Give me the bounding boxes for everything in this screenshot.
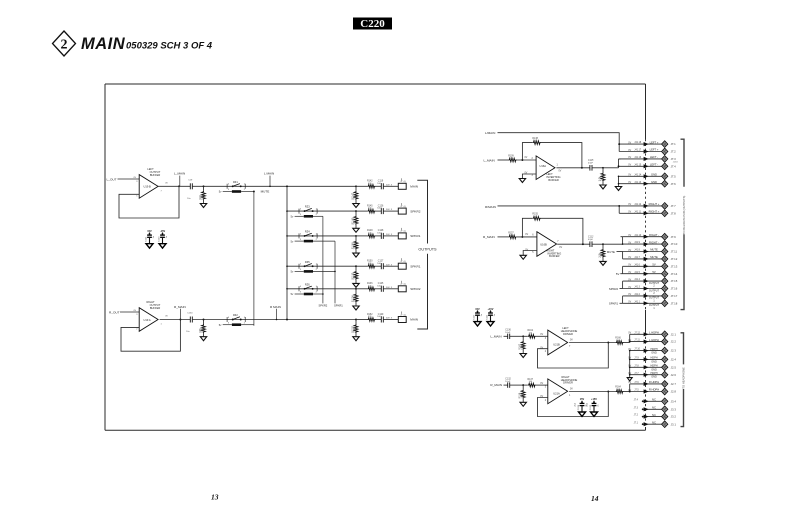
svg-text:LEFT -: LEFT -: [650, 155, 658, 159]
svg-text:JT.16: JT.16: [671, 287, 678, 291]
svg-text:0V: 0V: [628, 265, 631, 267]
svg-text:R_MAIN: R_MAIN: [483, 235, 495, 239]
svg-text:22K1: 22K1: [354, 296, 357, 302]
svg-text:0V: 0V: [570, 340, 573, 342]
svg-text:J2.3: J2.3: [671, 349, 677, 353]
svg-text:0V: 0V: [540, 334, 543, 336]
svg-text:MUTE: MUTE: [650, 255, 658, 259]
svg-text:0V: 0V: [628, 175, 631, 177]
svg-text:50V: 50V: [386, 264, 390, 266]
svg-text:U16A: U16A: [540, 164, 547, 168]
svg-text:JT.13: JT.13: [671, 264, 678, 268]
svg-text:100p: 100p: [377, 183, 383, 185]
svg-text:U19 A: U19 A: [144, 318, 151, 322]
svg-text:RIGHT +: RIGHT +: [649, 202, 660, 206]
svg-text:HDPH: HDPH: [650, 357, 657, 360]
svg-text:BUFFER: BUFFER: [549, 254, 560, 258]
svg-text:TO HEADPHONE: TO HEADPHONE: [681, 367, 685, 389]
svg-text:10uF: 10uF: [505, 381, 511, 383]
svg-text:22K1: 22K1: [354, 327, 357, 333]
svg-text:J41.10: J41.10: [634, 235, 642, 237]
svg-text:47pF: 47pF: [588, 163, 594, 165]
svg-text:J2.6: J2.6: [671, 373, 677, 377]
svg-text:(L): (L): [404, 181, 407, 183]
svg-text:J7.2: J7.2: [634, 415, 639, 417]
svg-text:RZ4: RZ4: [305, 231, 310, 234]
svg-text:HDPH: HDPH: [650, 372, 657, 375]
svg-text:JT.5: JT.5: [671, 174, 677, 178]
svg-text:10K: 10K: [533, 140, 537, 142]
svg-text:J41.15: J41.15: [634, 164, 642, 166]
svg-text:GND: GND: [651, 360, 657, 363]
svg-text:SPKR2: SPKR2: [609, 287, 619, 291]
svg-text:R HDPH: R HDPH: [649, 380, 659, 384]
svg-text:J41.8: J41.8: [634, 250, 640, 252]
svg-text:GND: GND: [651, 368, 657, 371]
svg-text:C117: C117: [474, 314, 476, 320]
svg-text:J41.11: J41.11: [634, 211, 641, 213]
svg-text:100p: 100p: [377, 208, 383, 210]
svg-text:BUFFER: BUFFER: [150, 173, 161, 177]
svg-text:0V: 0V: [628, 250, 631, 252]
svg-text:15V: 15V: [147, 230, 152, 233]
svg-text:R_MAIN: R_MAIN: [490, 383, 502, 387]
svg-text:50V: 50V: [386, 184, 390, 186]
svg-text:0V: 0V: [628, 157, 631, 159]
svg-text:J7.5: J7.5: [634, 390, 639, 392]
svg-text:2: 2: [61, 38, 68, 53]
svg-text:RIGHT -: RIGHT -: [649, 233, 659, 237]
svg-text:JT.8: JT.8: [671, 211, 677, 215]
svg-text:J41.14: J41.14: [634, 174, 642, 176]
svg-text:J7.6: J7.6: [634, 382, 639, 384]
svg-text:100p: 100p: [377, 233, 383, 235]
svg-text:C220: C220: [360, 18, 385, 30]
svg-text:100p: 100p: [377, 316, 383, 318]
svg-text:MUTE: MUTE: [650, 248, 658, 252]
svg-text:J163: J163: [673, 161, 679, 163]
svg-text:MAIN: MAIN: [410, 318, 418, 322]
svg-text:10K: 10K: [533, 216, 537, 218]
svg-text:JT.6: JT.6: [671, 182, 677, 186]
svg-text:NC: NC: [652, 420, 656, 424]
svg-text:1/10: 1/10: [601, 252, 604, 257]
svg-text:C130: C130: [187, 313, 193, 315]
svg-text:RIGHT +: RIGHT +: [649, 210, 660, 214]
svg-text:0V: 0V: [559, 247, 562, 249]
svg-text:100K: 100K: [521, 344, 524, 350]
svg-text:0V: 0V: [525, 157, 528, 159]
svg-text:NC: NC: [652, 413, 656, 417]
svg-text:J41.2: J41.2: [634, 294, 640, 296]
svg-text:SPKR1: SPKR1: [410, 234, 420, 238]
svg-text:J7.7: J7.7: [634, 373, 639, 375]
svg-text:HDPH: HDPH: [650, 365, 657, 368]
svg-text:J3.2: J3.2: [671, 415, 677, 419]
svg-text:J7.8: J7.8: [634, 365, 639, 367]
svg-text:C111: C111: [487, 314, 489, 320]
svg-text:L HDPH: L HDPH: [649, 331, 659, 335]
svg-text:SPKR1: SPKR1: [609, 302, 619, 306]
svg-text:GND: GND: [651, 173, 657, 177]
svg-text:J2.5: J2.5: [671, 365, 677, 369]
svg-text:C121: C121: [146, 236, 148, 242]
svg-text:U16B: U16B: [540, 242, 547, 246]
svg-text:10u: 10u: [187, 198, 190, 200]
svg-text:BUFFER: BUFFER: [150, 306, 161, 310]
svg-text:JT.7: JT.7: [671, 204, 677, 208]
svg-text:C135: C135: [590, 404, 592, 410]
svg-text:J2.7: J2.7: [671, 382, 677, 386]
svg-text:L_MAIN: L_MAIN: [490, 334, 501, 338]
svg-text:J7.9: J7.9: [634, 358, 639, 360]
svg-text:J41.7: J41.7: [634, 257, 640, 259]
svg-text:JT.2: JT.2: [671, 150, 677, 154]
svg-text:OUTPUT: OUTPUT: [649, 304, 660, 307]
svg-text:J7.1: J7.1: [634, 422, 639, 424]
svg-text:JT.12: JT.12: [671, 257, 678, 261]
svg-text:(L): (L): [404, 284, 407, 286]
svg-text:DRIVER: DRIVER: [563, 332, 573, 336]
svg-text:1/10: 1/10: [601, 176, 604, 181]
svg-text:5V: 5V: [652, 263, 655, 267]
svg-text:C134: C134: [578, 404, 580, 410]
svg-text:0V: 0V: [628, 242, 631, 244]
svg-text:BUFFER: BUFFER: [548, 178, 559, 182]
svg-text:100K: 100K: [521, 393, 524, 399]
svg-text:DRIVER: DRIVER: [563, 381, 573, 385]
svg-text:J3.1: J3.1: [671, 422, 677, 426]
svg-text:(L): (L): [404, 231, 407, 233]
svg-text:MAIN: MAIN: [410, 185, 418, 189]
svg-text:0V: 0V: [628, 165, 631, 167]
svg-text:NC: NC: [652, 406, 656, 410]
svg-text:L/MAIN: L/MAIN: [485, 131, 495, 135]
svg-text:JT.9: JT.9: [671, 235, 677, 239]
svg-text:LEFT -: LEFT -: [650, 163, 658, 167]
svg-text:+15V: +15V: [591, 398, 597, 401]
svg-text:22K1: 22K1: [354, 218, 357, 224]
svg-text:J7.10: J7.10: [634, 349, 640, 351]
svg-text:U21A: U21A: [553, 391, 560, 395]
svg-text:0V: 0V: [628, 150, 631, 152]
svg-text:22K1: 22K1: [354, 193, 357, 199]
svg-text:5V: 5V: [652, 270, 655, 274]
svg-text:0V: 0V: [628, 182, 631, 184]
svg-text:-15V: -15V: [160, 230, 166, 233]
svg-text:J7.4: J7.4: [634, 399, 639, 401]
svg-text:15V: 15V: [580, 398, 585, 401]
svg-text:L HDPH: L HDPH: [649, 338, 659, 342]
svg-text:14: 14: [591, 494, 599, 503]
svg-text:RZ5: RZ5: [305, 261, 310, 264]
svg-text:J3.4: J3.4: [671, 399, 677, 403]
svg-text:50V: 50V: [386, 318, 390, 320]
svg-text:MAIN: MAIN: [81, 35, 126, 53]
svg-text:GND: GND: [651, 352, 657, 355]
svg-text:L_OUT: L_OUT: [107, 177, 117, 181]
svg-text:RZ6: RZ6: [305, 283, 310, 286]
svg-text:RIGHT -: RIGHT -: [649, 240, 659, 244]
svg-text:R HDPH: R HDPH: [649, 388, 659, 392]
svg-text:10K: 10K: [509, 234, 513, 236]
svg-text:J41.4: J41.4: [634, 279, 640, 281]
svg-text:(L): (L): [404, 206, 407, 208]
svg-text:5V: 5V: [616, 272, 620, 276]
svg-text:22K1: 22K1: [354, 243, 357, 249]
svg-text:J41.1: J41.1: [634, 301, 640, 303]
svg-text:J41.5: J41.5: [634, 272, 640, 274]
svg-text:50V: 50V: [386, 234, 390, 236]
svg-text:10K: 10K: [509, 158, 513, 160]
svg-text:SPKR1: SPKR1: [410, 264, 420, 268]
svg-text:NC: NC: [652, 398, 656, 402]
svg-text:J2.2: J2.2: [671, 340, 677, 344]
svg-text:0V: 0V: [540, 383, 543, 385]
svg-text:MUTE: MUTE: [261, 189, 270, 193]
svg-text:JT.14: JT.14: [671, 272, 678, 276]
svg-text:J7.3: J7.3: [634, 407, 639, 409]
svg-text:J41.16: J41.16: [634, 157, 642, 159]
svg-text:SPKR2: SPKR2: [410, 209, 420, 213]
svg-text:TO BAL/DATA PCB (OUTPUTS): TO BAL/DATA PCB (OUTPUTS): [682, 196, 686, 235]
svg-text:J41.12: J41.12: [634, 204, 642, 206]
svg-text:J2.8: J2.8: [671, 390, 677, 394]
svg-text:0V: 0V: [628, 257, 631, 259]
svg-text:47pF: 47pF: [588, 239, 594, 241]
svg-text:LEFT +: LEFT +: [650, 140, 659, 144]
svg-text:0V: 0V: [628, 287, 631, 289]
svg-text:GND: GND: [651, 180, 657, 184]
svg-text:100p: 100p: [377, 263, 383, 265]
svg-text:J41.6: J41.6: [634, 264, 640, 266]
svg-text:+15V: +15V: [488, 308, 494, 311]
svg-text:0V: 0V: [628, 279, 631, 281]
svg-text:GND: GND: [651, 376, 657, 379]
svg-text:JT.18: JT.18: [671, 301, 678, 305]
svg-text:50V: 50V: [386, 287, 390, 289]
svg-text:J2.1: J2.1: [671, 332, 677, 336]
svg-text:0V: 0V: [628, 142, 631, 144]
svg-text:R_OUT: R_OUT: [109, 310, 120, 314]
svg-text:10uF: 10uF: [505, 332, 511, 334]
svg-text:R/MAIN: R/MAIN: [485, 205, 496, 209]
svg-text:13: 13: [211, 493, 219, 502]
svg-text:J2.4: J2.4: [671, 358, 677, 362]
svg-text:U21B: U21B: [553, 342, 560, 346]
svg-text:0V: 0V: [525, 234, 528, 236]
svg-text:J41.18: J41.18: [634, 142, 642, 144]
svg-text:100: 100: [201, 195, 204, 200]
svg-text:0V: 0V: [628, 294, 631, 296]
svg-text:SPKR2: SPKR2: [410, 287, 420, 291]
svg-text:SPKR1: SPKR1: [334, 303, 343, 307]
svg-text:JT.15: JT.15: [671, 279, 678, 283]
svg-text:10u: 10u: [186, 331, 189, 333]
svg-text:0V: 0V: [559, 171, 562, 173]
svg-text:JT.1: JT.1: [671, 142, 677, 146]
svg-text:0V: 0V: [628, 272, 631, 274]
svg-text:HDPH: HDPH: [650, 348, 657, 351]
svg-text:050329 SCH 3 OF 4: 050329 SCH 3 OF 4: [126, 41, 213, 52]
svg-text:R_MAIN: R_MAIN: [174, 305, 186, 309]
svg-text:0V: 0V: [570, 389, 573, 391]
svg-text:100: 100: [201, 328, 204, 333]
svg-text:OUTPUTS: OUTPUTS: [418, 247, 437, 251]
svg-text:SPKR2: SPKR2: [318, 303, 327, 307]
svg-text:L_MAIN: L_MAIN: [484, 158, 495, 162]
svg-text:15V: 15V: [475, 308, 480, 311]
svg-text:C123: C123: [159, 236, 161, 242]
svg-text:J3.3: J3.3: [671, 407, 677, 411]
svg-text:22K1: 22K1: [354, 273, 357, 279]
svg-text:(L): (L): [404, 314, 407, 316]
svg-text:LEFT +: LEFT +: [650, 148, 659, 152]
svg-text:(L): (L): [404, 261, 407, 263]
svg-text:J7.12: J7.12: [634, 332, 640, 334]
svg-text:R MAIN: R MAIN: [270, 305, 281, 309]
svg-text:OUTPUT: OUTPUT: [649, 297, 660, 300]
svg-text:OUTPUT: OUTPUT: [649, 282, 660, 285]
svg-text:OUTPUT: OUTPUT: [649, 289, 660, 292]
svg-text:J41.9: J41.9: [634, 242, 640, 244]
svg-text:RZ1: RZ1: [233, 181, 238, 184]
svg-text:RZ3: RZ3: [305, 206, 310, 209]
svg-text:0V: 0V: [628, 235, 631, 237]
svg-text:JT.17: JT.17: [671, 294, 678, 298]
svg-text:50V: 50V: [386, 209, 390, 211]
svg-text:RZ2: RZ2: [233, 314, 238, 317]
svg-text:0V: 0V: [628, 204, 631, 206]
svg-text:0V: 0V: [628, 212, 631, 214]
svg-text:J7.11: J7.11: [634, 340, 640, 342]
svg-text:JT.4: JT.4: [671, 164, 677, 168]
svg-text:JT.10: JT.10: [671, 242, 678, 246]
svg-text:L MAIN: L MAIN: [264, 172, 274, 176]
svg-text:0V: 0V: [628, 302, 631, 304]
svg-text:JT.11: JT.11: [671, 250, 678, 254]
svg-text:100p: 100p: [377, 285, 383, 287]
svg-text:J41.3: J41.3: [634, 287, 640, 289]
svg-text:MUTE: MUTE: [607, 250, 615, 254]
svg-text:U19 B: U19 B: [144, 185, 151, 189]
svg-text:L_MAIN: L_MAIN: [174, 172, 185, 176]
svg-text:J41.17: J41.17: [634, 150, 642, 152]
svg-text:J41.13: J41.13: [634, 182, 642, 184]
